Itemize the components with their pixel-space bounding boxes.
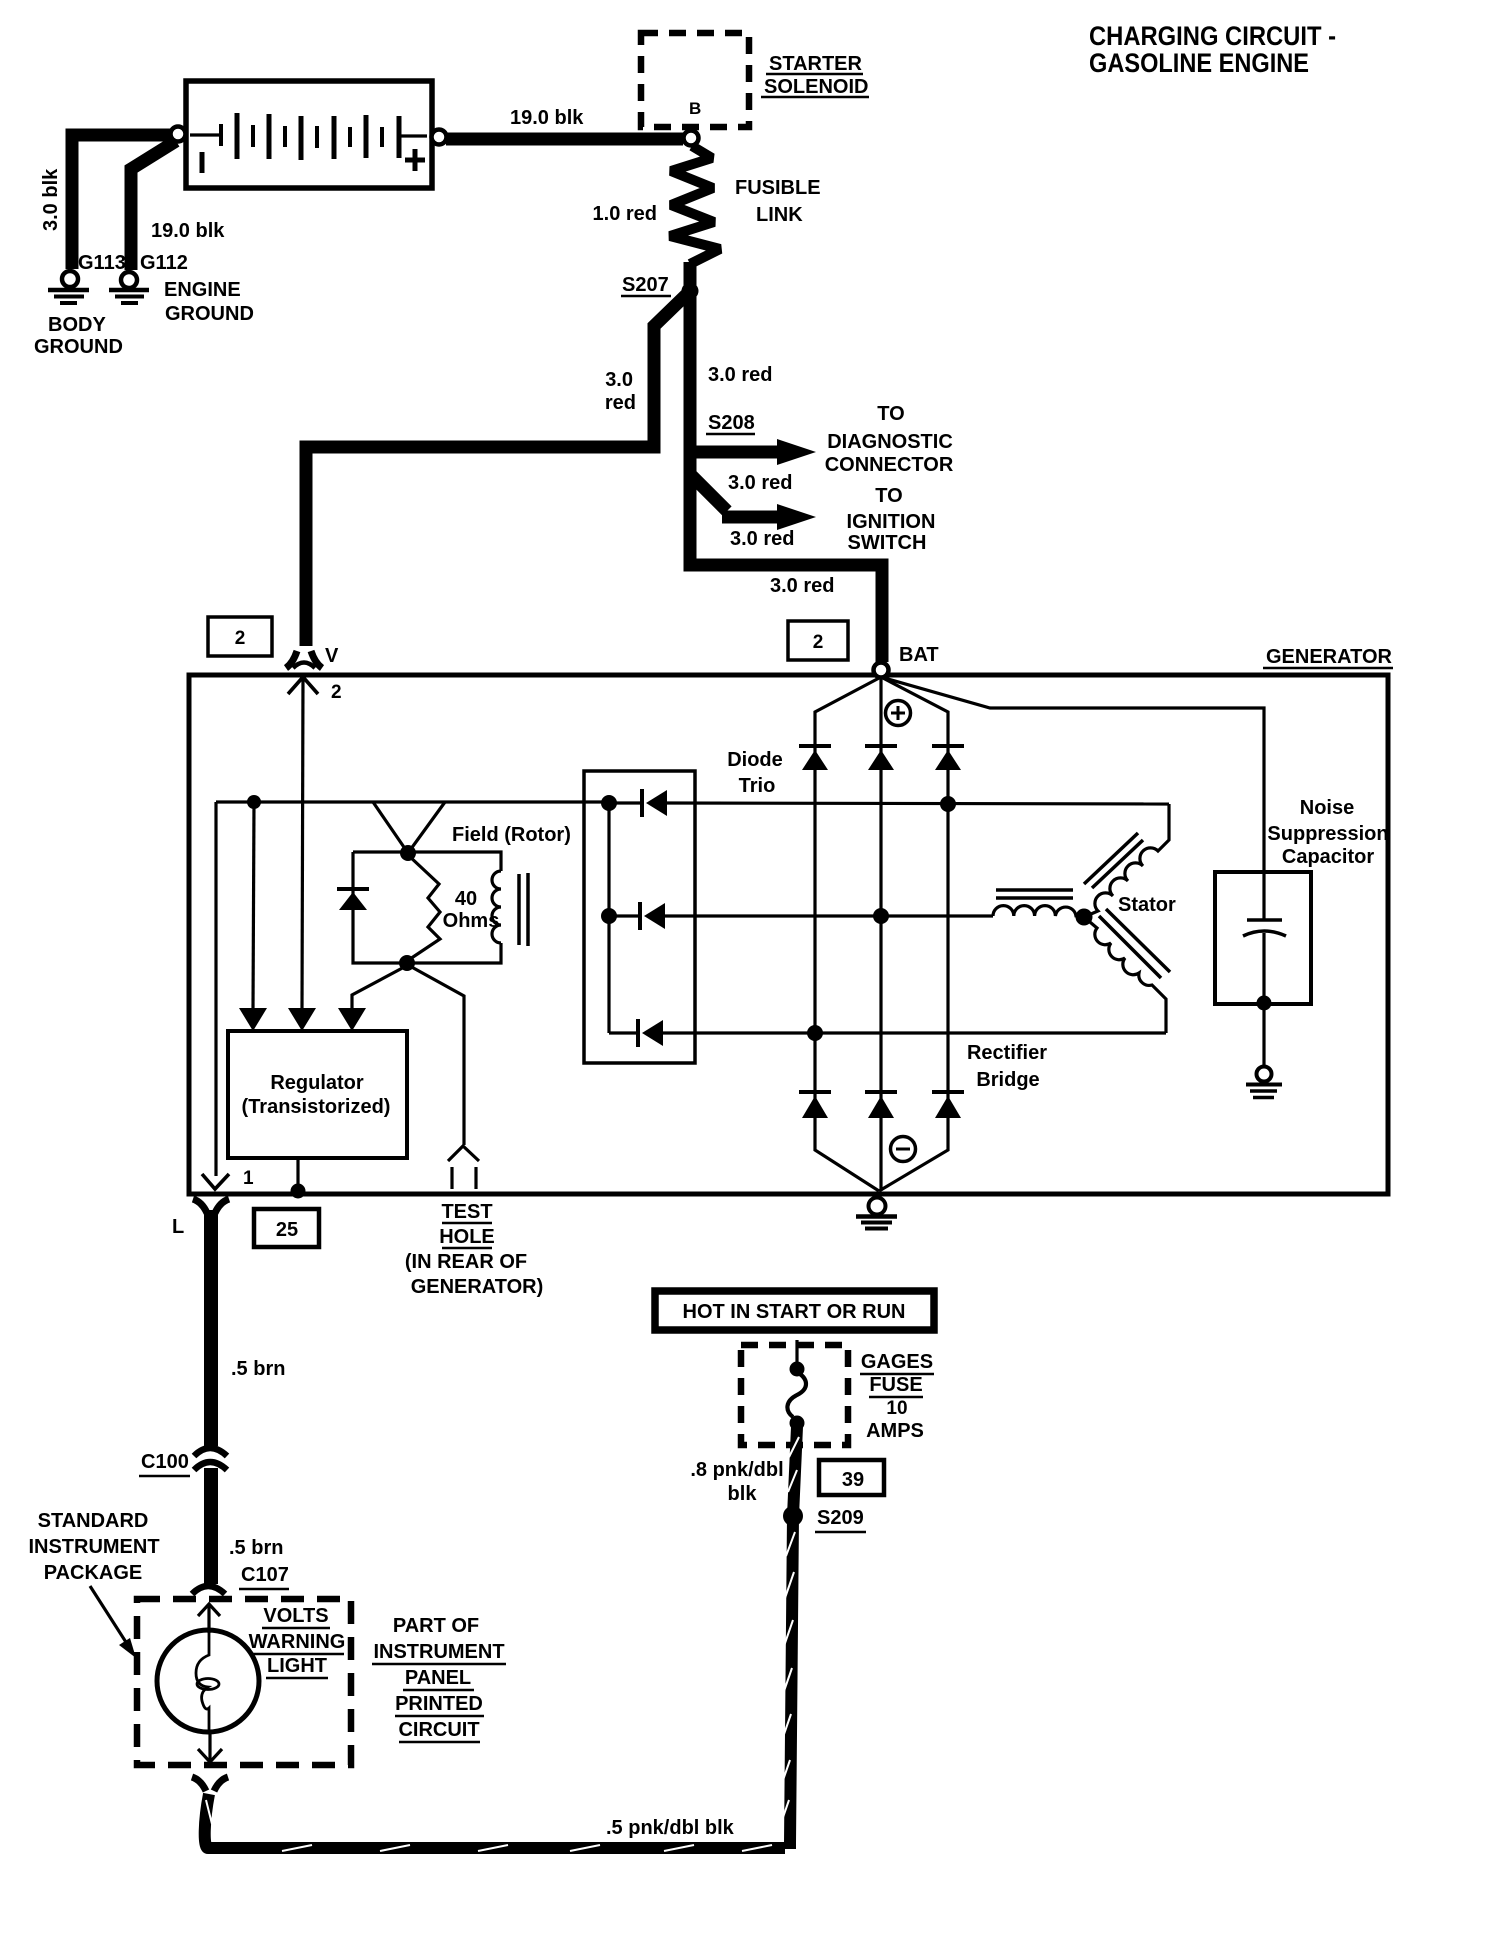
svg-text:VOLTS: VOLTS [263, 1605, 328, 1627]
svg-text:39: 39 [842, 1469, 864, 1491]
svg-text:2: 2 [331, 682, 342, 703]
svg-text:2: 2 [813, 632, 824, 653]
svg-text:Stator: Stator [1118, 894, 1176, 916]
svg-text:LINK: LINK [756, 204, 803, 226]
svg-text:FUSIBLE: FUSIBLE [735, 177, 821, 199]
svg-text:PACKAGE: PACKAGE [44, 1562, 143, 1584]
svg-text:WARNING: WARNING [249, 1631, 346, 1653]
svg-text:red: red [605, 392, 636, 414]
svg-text:BODY: BODY [48, 314, 106, 336]
svg-text:INSTRUMENT: INSTRUMENT [28, 1536, 159, 1558]
svg-text:Capacitor: Capacitor [1282, 846, 1374, 868]
svg-text:Noise: Noise [1300, 797, 1354, 819]
svg-text:Trio: Trio [739, 775, 776, 797]
svg-text:3.0 red: 3.0 red [730, 528, 794, 550]
svg-text:GROUND: GROUND [165, 303, 254, 325]
svg-text:V: V [325, 645, 339, 667]
svg-text:ENGINE: ENGINE [164, 279, 241, 301]
svg-text:S208: S208 [708, 412, 755, 434]
svg-text:Suppression: Suppression [1267, 823, 1388, 845]
svg-text:HOT IN START OR RUN: HOT IN START OR RUN [683, 1301, 906, 1323]
svg-text:3.0: 3.0 [605, 369, 633, 391]
svg-text:B: B [689, 99, 701, 118]
svg-text:Bridge: Bridge [976, 1069, 1039, 1091]
svg-text:C100: C100 [141, 1451, 189, 1473]
svg-text:GENERATOR: GENERATOR [1266, 646, 1392, 668]
svg-text:19.0 blk: 19.0 blk [510, 107, 584, 129]
svg-text:1: 1 [243, 1168, 254, 1189]
svg-text:S207: S207 [622, 274, 669, 296]
svg-text:2: 2 [235, 628, 246, 649]
svg-text:3.0 blk: 3.0 blk [40, 168, 62, 231]
svg-text:3.0 red: 3.0 red [708, 364, 772, 386]
svg-text:IGNITION: IGNITION [847, 511, 936, 533]
svg-text:TO: TO [875, 485, 902, 507]
svg-text:GASOLINE ENGINE: GASOLINE ENGINE [1089, 48, 1309, 78]
svg-text:LIGHT: LIGHT [267, 1655, 327, 1677]
svg-text:Field (Rotor): Field (Rotor) [452, 824, 571, 846]
svg-text:L: L [172, 1216, 184, 1238]
svg-text:AMPS: AMPS [866, 1420, 924, 1442]
svg-text:PANEL: PANEL [405, 1667, 471, 1689]
svg-text:.5 brn: .5 brn [231, 1358, 285, 1380]
svg-text:STANDARD: STANDARD [38, 1510, 149, 1532]
svg-text:FUSE: FUSE [869, 1374, 922, 1396]
svg-text:.5 pnk/dbl blk: .5 pnk/dbl blk [606, 1817, 735, 1839]
svg-text:Regulator: Regulator [270, 1072, 364, 1094]
svg-text:HOLE: HOLE [439, 1226, 495, 1248]
svg-text:G112: G112 [140, 252, 188, 274]
svg-text:TEST: TEST [441, 1201, 492, 1223]
svg-text:Diode: Diode [727, 749, 783, 771]
svg-text:blk: blk [728, 1483, 758, 1505]
svg-text:Ohms: Ohms [443, 910, 500, 932]
svg-text:PART OF: PART OF [393, 1615, 479, 1637]
svg-text:GENERATOR): GENERATOR) [411, 1276, 544, 1298]
svg-text:TO: TO [877, 403, 904, 425]
svg-text:(Transistorized): (Transistorized) [242, 1096, 391, 1118]
svg-text:INSTRUMENT: INSTRUMENT [373, 1641, 504, 1663]
svg-text:3.0 red: 3.0 red [728, 472, 792, 494]
svg-text:SOLENOID: SOLENOID [764, 76, 868, 98]
svg-text:19.0 blk: 19.0 blk [151, 220, 225, 242]
svg-text:(IN REAR OF: (IN REAR OF [405, 1251, 527, 1273]
svg-text:PRINTED: PRINTED [395, 1693, 483, 1715]
svg-text:CIRCUIT: CIRCUIT [398, 1719, 479, 1741]
svg-text:C107: C107 [241, 1564, 289, 1586]
svg-text:.8 pnk/dbl: .8 pnk/dbl [690, 1459, 783, 1481]
svg-text:40: 40 [455, 888, 477, 910]
svg-text:S209: S209 [817, 1507, 864, 1529]
svg-text:CHARGING CIRCUIT -: CHARGING CIRCUIT - [1089, 21, 1336, 51]
svg-text:CONNECTOR: CONNECTOR [825, 454, 954, 476]
svg-text:SWITCH: SWITCH [848, 532, 927, 554]
svg-text:25: 25 [276, 1219, 298, 1241]
svg-text:DIAGNOSTIC: DIAGNOSTIC [827, 431, 953, 453]
svg-text:3.0 red: 3.0 red [770, 575, 834, 597]
svg-text:BAT: BAT [899, 644, 939, 666]
svg-text:10: 10 [886, 1398, 907, 1419]
svg-text:GROUND: GROUND [34, 336, 123, 358]
svg-text:.5 brn: .5 brn [229, 1537, 283, 1559]
svg-text:G113: G113 [78, 252, 126, 274]
svg-text:STARTER: STARTER [769, 53, 863, 75]
svg-text:GAGES: GAGES [861, 1351, 933, 1373]
svg-text:Rectifier: Rectifier [967, 1042, 1047, 1064]
svg-text:1.0 red: 1.0 red [593, 203, 657, 225]
